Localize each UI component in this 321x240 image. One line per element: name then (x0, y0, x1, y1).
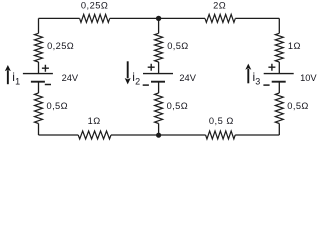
resistor 0,5Ω (bottom wire, right) (206, 131, 236, 139)
wire left branch: resistor to battery (38, 62, 40, 74)
polarity - sign (middle battery) (143, 84, 149, 86)
battery 24V (middle branch) long positive plate (143, 73, 173, 75)
node: bottom junction dot (156, 133, 161, 138)
resistor 1ohm (right branch, upper) (275, 33, 283, 62)
svg-text:10V: 10V (300, 73, 317, 83)
svg-text:0,5Ω: 0,5Ω (167, 101, 188, 111)
node: top junction dot (156, 16, 161, 21)
wire middle branch: top lead (158, 18, 160, 33)
wire left branch: top lead (38, 18, 40, 33)
wire middle branch: bottom lead (158, 124, 160, 136)
battery 24V (middle branch) short negative plate (151, 81, 165, 83)
svg-text:24V: 24V (62, 73, 79, 83)
wire left branch: bottom lead (38, 124, 40, 136)
polarity + sign (right battery) (268, 64, 275, 71)
wire top-right segment (235, 17, 279, 19)
svg-text:0,5Ω: 0,5Ω (287, 101, 308, 111)
battery 10V (right branch) short negative plate (272, 81, 286, 83)
battery 24V (left branch) long positive plate (23, 73, 53, 75)
arrowhead i2 (125, 78, 131, 84)
svg-text:0,5Ω: 0,5Ω (167, 41, 188, 51)
wire top-middle segment (110, 17, 205, 19)
wire middle branch: battery to lower resistor (158, 82, 160, 93)
svg-text:2: 2 (135, 77, 140, 87)
svg-text:1Ω: 1Ω (288, 41, 301, 51)
svg-text:0,5Ω: 0,5Ω (47, 101, 68, 111)
current arrow i1 (upward) (7, 70, 9, 84)
resistor 0,5ohm (left branch, lower) (35, 93, 43, 124)
wire right branch: battery to lower resistor (278, 82, 280, 93)
wire top-left horizontal segment (39, 17, 80, 19)
polarity - sign (left battery) (45, 84, 51, 86)
svg-text:0,5 Ω: 0,5 Ω (209, 116, 234, 126)
wire middle branch: resistor to battery (158, 62, 160, 74)
resistor 0,25Ω (top wire, left) (80, 14, 110, 22)
polarity + sign (left battery) (42, 65, 49, 72)
wire right branch: top lead (278, 18, 280, 33)
arrowhead i3 (245, 64, 251, 70)
wire right branch: resistor to battery (278, 62, 280, 74)
polarity - sign (right battery) (263, 84, 269, 86)
svg-text:3: 3 (255, 77, 260, 87)
battery 10V (right branch) long positive plate (264, 73, 294, 75)
svg-text:2Ω: 2Ω (213, 0, 226, 10)
resistor 0,5ohm (right branch, lower) (275, 93, 283, 124)
svg-text:0,25Ω: 0,25Ω (81, 0, 109, 10)
resistor 2Ω (top wire, right) (205, 14, 235, 22)
resistor 0,5ohm (middle branch, upper) (155, 33, 163, 62)
resistor 0,25ohm (left branch, upper) (35, 33, 43, 62)
current arrow i2 (downward) (127, 61, 129, 78)
svg-text:24V: 24V (179, 73, 196, 83)
battery 24V (left branch) short negative plate (31, 81, 45, 83)
circuit schematic: three parallel battery branches with resistors (0, 0, 321, 149)
svg-text:1: 1 (15, 77, 20, 87)
wire right branch: bottom lead (278, 124, 280, 136)
polarity + sign (middle battery) (148, 64, 155, 71)
wire bottom-right segment (235, 134, 279, 136)
wire bottom-middle segment (111, 134, 206, 136)
resistor 1Ω (bottom wire, left) (78, 131, 111, 139)
svg-text:1Ω: 1Ω (88, 116, 101, 126)
current arrow i3 (upward) (247, 69, 249, 83)
wire bottom-left horizontal segment (39, 134, 79, 136)
resistor 0,5ohm (middle branch, lower) (155, 93, 163, 124)
arrowhead i1 (5, 65, 11, 71)
svg-text:0,25Ω: 0,25Ω (47, 41, 74, 51)
wire left branch: battery to lower resistor (38, 82, 40, 93)
